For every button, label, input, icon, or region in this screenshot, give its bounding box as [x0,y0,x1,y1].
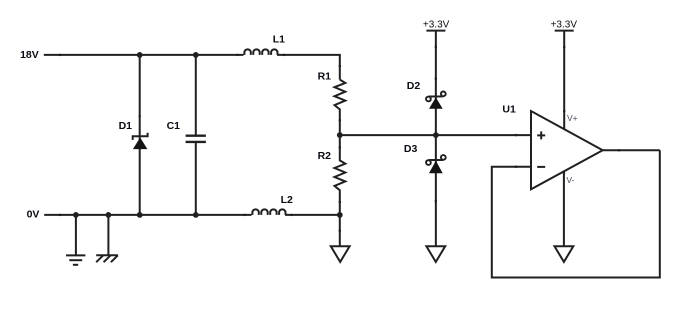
pin dot R1 top lead [339,65,341,68]
pin dot L1 right [282,54,285,56]
op-amp plus input symbol [537,131,545,139]
zener diode D2 [426,92,446,109]
junction dot top rail / D1 [137,52,143,58]
pin dot non-inverting input [514,134,517,136]
svg-text:+3.3V: +3.3V [423,20,450,31]
junction dot bottom rail / earth ground [73,212,79,218]
pin dot R2 ground lead [339,229,341,232]
pin dot output [617,149,620,151]
wire D1 column [139,55,141,215]
svg-text:U1: U1 [502,104,516,116]
wire D3 column [435,135,437,246]
junction dot bottom rail / chassis ground [106,212,112,218]
wire C1 bottom lead [195,143,197,215]
svg-text:V+: V+ [567,113,578,123]
svg-text:R2: R2 [318,150,332,162]
pin dot R2 bottom lead [339,201,341,204]
svg-text:L2: L2 [281,194,293,206]
pin dot D2 top lead [435,46,437,49]
earth ground symbol [66,215,85,265]
wire bottom rail after L2 to R2 bottom [285,214,340,216]
inductor L2 [252,209,285,215]
zener diode D3 [426,155,446,173]
pin dot D1 top lead [139,115,141,118]
power +3.3V bar for D2 [426,31,445,136]
svg-text:D3: D3 [404,143,418,155]
zener diode D1 [133,133,148,149]
wire top rail after L1 to R1 corner [277,55,340,80]
resistor R1 [335,80,346,136]
wire feedback loop [492,150,660,277]
pin dot 18V wire start [58,54,61,56]
svg-text:+3.3V: +3.3V [551,19,578,30]
wire mid node to op-amp [340,134,532,136]
ground arrow under D3 [426,246,445,262]
ground arrow under R2 [331,246,350,262]
wire C1 top lead [195,55,197,135]
svg-text:D2: D2 [407,80,421,92]
wire R2 bottom to ground [339,215,341,246]
svg-text:C1: C1 [167,120,181,132]
pin dot D3 ground lead [435,200,437,203]
pin dot V+ pin [563,110,565,113]
svg-text:V-: V- [566,175,574,185]
resistor R2 [335,135,346,215]
svg-text:18V: 18V [20,49,39,61]
inductor L1 [244,49,277,55]
pin dot 0V wire start [58,214,61,216]
junction dot bottom rail / C1 [193,212,199,218]
wire V- pin to ground [563,171,565,246]
pin dot D2 lead above symbol [435,77,437,80]
wire 0V bottom rail [44,214,251,216]
chassis ground symbol [96,215,118,262]
pin dot R1 bottom lead [339,119,341,122]
power +3.3V bar for U1 [555,31,574,131]
pin dot L2 left [243,214,246,216]
pin dot L2 right [290,214,293,216]
junction dot R2 bottom / L2 [337,212,343,218]
op-amp U1 triangle [531,111,603,189]
op-amp minus input symbol [537,166,545,168]
svg-text:L1: L1 [273,34,285,46]
junction dot mid node / D2 D3 [433,132,439,138]
wire op-amp output [603,149,660,151]
capacitor C1 [186,136,206,142]
ground arrow under U1 [555,246,574,262]
junction dot R1/R2 mid node [337,132,343,138]
pin dot inverting input [514,166,517,168]
pin dot R2 top lead [339,146,341,149]
pin dot L1 left [236,54,239,56]
svg-text:0V: 0V [27,208,40,220]
pin dot V- pin [563,171,565,174]
junction dot bottom rail / D1 [137,212,143,218]
wire 18V top rail [44,54,244,56]
junction dot top rail / C1 [193,52,199,58]
pin dot V+ lead [563,46,565,49]
svg-text:R1: R1 [318,71,332,83]
svg-text:D1: D1 [119,120,133,132]
